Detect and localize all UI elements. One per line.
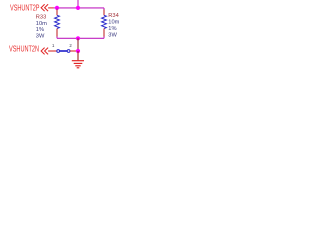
resistor R34 [102,15,107,28]
junction dot top [76,6,80,10]
svg-text:1: 1 [52,43,55,48]
wire R34 top lead [103,8,105,10]
svg-text:R33: R33 [36,15,46,21]
junction dot bottom rail [76,36,80,40]
ground symbol [72,61,84,68]
jumper body [57,50,70,53]
wire jumper to node [70,50,78,52]
svg-text:2: 2 [69,43,72,48]
pin stub R33 pin2 [56,29,58,37]
off-page connector VSHUNT2P [41,4,53,11]
svg-text:3W: 3W [36,33,45,39]
ground stub [77,51,79,60]
svg-text:VSHUNT2P: VSHUNT2P [10,4,40,13]
wire R34 bottom lead [103,37,105,39]
wire R33 bottom lead [56,37,58,39]
wire bottom rail [57,37,104,39]
wire drop to ground node [77,38,79,51]
svg-text:R34: R34 [108,13,118,19]
svg-text:1%: 1% [36,27,44,33]
svg-text:10m: 10m [108,20,119,26]
wire top rail [57,7,104,9]
wire R33 top lead [56,8,58,10]
pin stub R34 pin2 [103,29,105,37]
resistor R33 [55,15,60,28]
wire top-left [54,7,58,9]
off-page connector VSHUNT2N [41,48,48,55]
wire connector to jumper [48,50,57,52]
svg-text:1%: 1% [108,26,116,32]
svg-text:VSHUNT2N: VSHUNT2N [9,45,39,54]
svg-text:3W: 3W [108,32,117,38]
pin stub R33 pin1 [56,10,58,16]
pin stub R34 pin1 [103,10,105,16]
junction dot ground node [76,49,80,53]
wire stub to top edge [77,0,79,8]
junction dot left [55,6,59,10]
